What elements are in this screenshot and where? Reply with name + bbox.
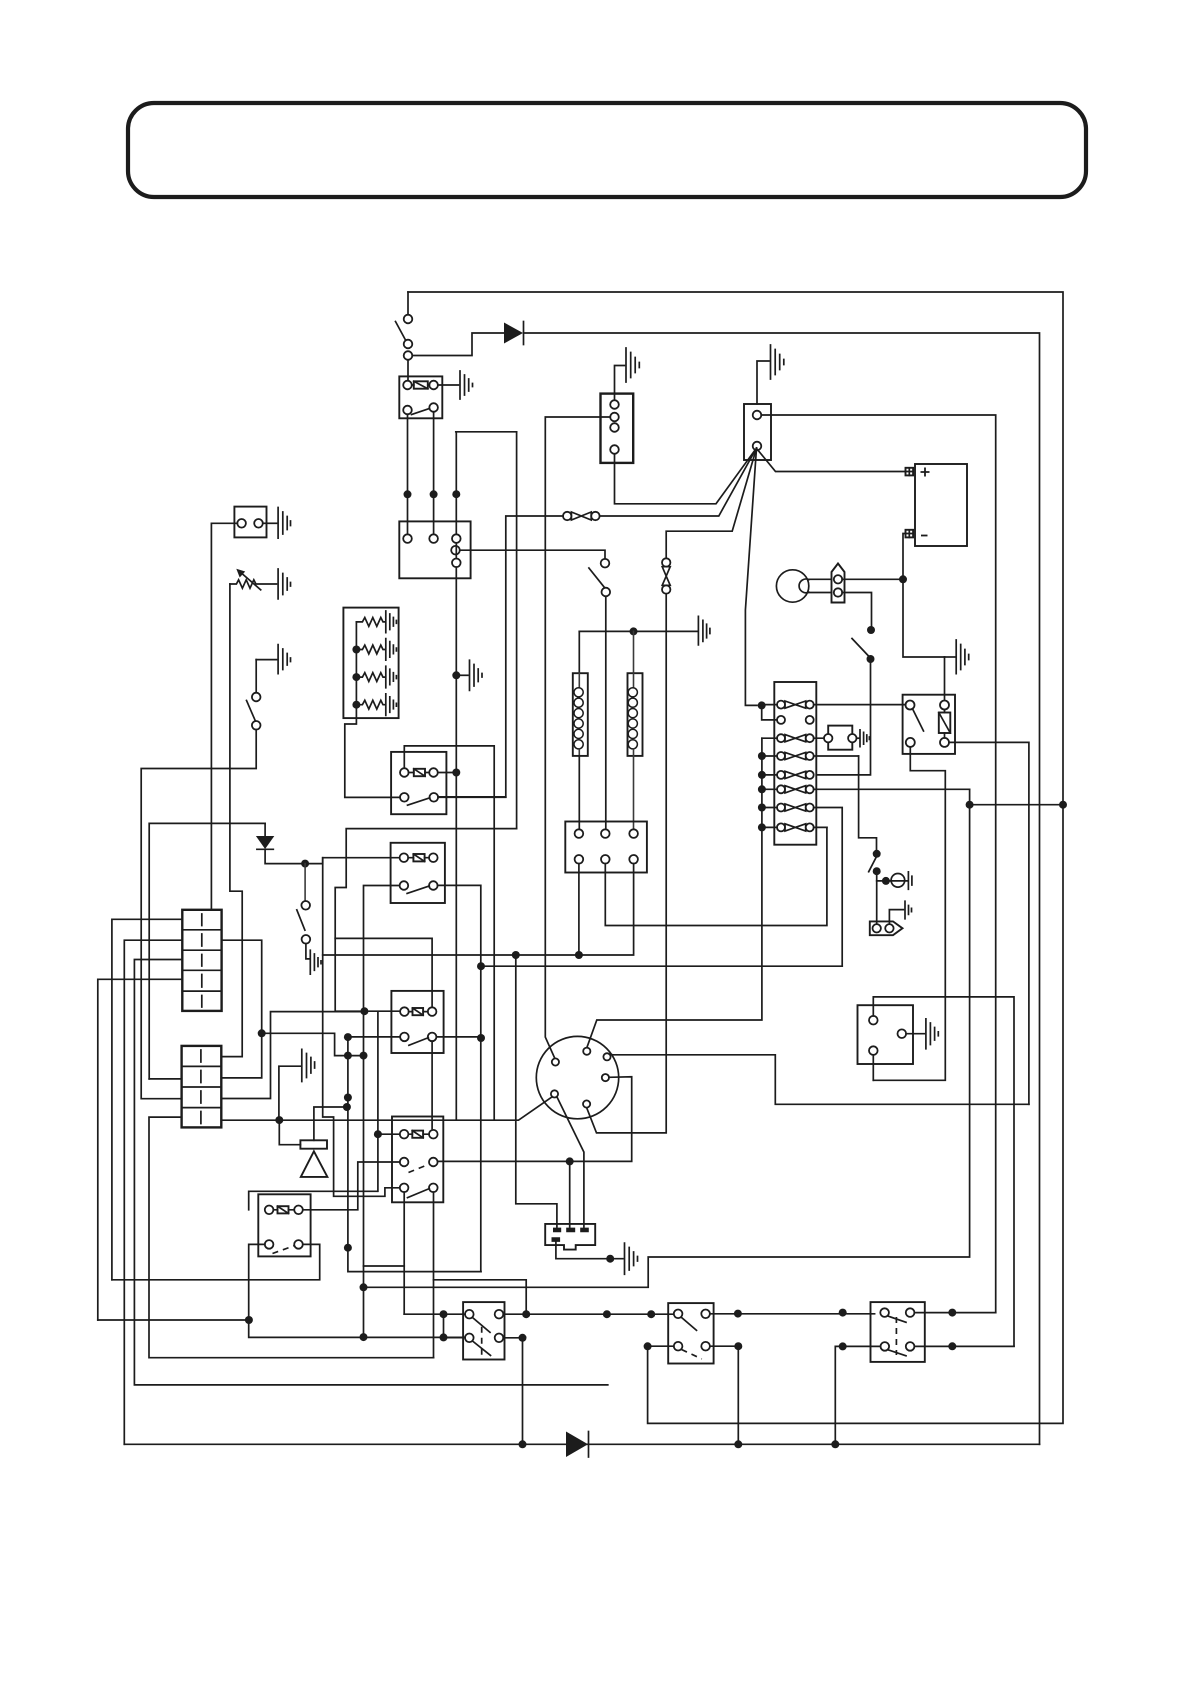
wire: hour meter mid pin to ground xyxy=(906,1033,924,1035)
glow plug coil 1 xyxy=(578,631,580,673)
connector CNO (oil pressure, pentagon) xyxy=(870,921,903,935)
fan line C: CN2R pin2 via vertical inline connector to key switch bottom xyxy=(587,448,757,1133)
diode D1 (pointing right) xyxy=(504,323,523,344)
connector CNF (right of fuse row3) with ground xyxy=(828,726,852,750)
wire: SW2 row2 right drop to bottom wire xyxy=(710,1346,738,1444)
wire: buzzer feed from block2-row4 run xyxy=(279,1120,300,1145)
wire: R5 coil-left to V378 xyxy=(378,1133,400,1135)
glow resistor bus xyxy=(345,622,400,798)
node: dots on x=481 xyxy=(477,962,485,970)
wire: S4b to fuse row5 xyxy=(816,659,870,775)
ground (right of CN2L) xyxy=(278,508,290,539)
wire: CB2 row2 left xyxy=(149,1078,181,1080)
ground (right of x=456.3, mid) xyxy=(456,674,468,676)
switch S1 (top, above relay R1) xyxy=(407,292,409,314)
key connector block xyxy=(545,1224,595,1250)
wire: dot to R3 rail xyxy=(305,858,323,864)
wire: CN6 bottom-right pin down, horizontal A to left xyxy=(323,864,634,955)
wire: R2 bottom-right to fan line B end xyxy=(438,796,506,798)
connector block CB1 (5x2) xyxy=(182,910,221,1011)
diode D2 (pointing down, left area) xyxy=(264,823,266,836)
connector CN4 (4-pin, top center) xyxy=(601,394,634,463)
wire: RB lower-right pin to x=1028.9 rail down to relay R5 loop xyxy=(949,742,1029,1104)
fuse FU1 row1 xyxy=(762,701,814,709)
wire: bulb to connector CNB xyxy=(809,579,832,592)
fuse box xyxy=(774,682,816,845)
relay RB (starter relay, right) xyxy=(903,695,955,754)
node: dot D2 to S2 xyxy=(301,860,309,868)
wire: fuse row6 to right rail junction xyxy=(364,789,970,1287)
fuse FU5 row6 xyxy=(762,785,970,793)
wire: top feed from switch S1 to right rail x=1063 down to bottom-left rail xyxy=(408,292,1063,1423)
wire: key switch right pin to R5 row2 xyxy=(438,1077,632,1162)
wire: key bottom-left pin to block2 row4 (left) xyxy=(221,1097,552,1120)
ground (right of battery negative wire) xyxy=(956,640,969,674)
connector block CB2 (4x2) xyxy=(182,1046,222,1128)
wire: glow plug ground rail xyxy=(579,630,698,632)
node: dot V347 top xyxy=(344,1033,352,1041)
wire: buzzer top to x=346.9 rail xyxy=(314,1107,347,1140)
wire: V378 rail xyxy=(377,1011,379,1191)
wire: link y=1266 xyxy=(364,1265,405,1267)
resistor row3 xyxy=(356,673,384,682)
wire: CN4 top pin to ground xyxy=(615,366,625,401)
wire: R5 bottom-left pin down xyxy=(403,1192,405,1314)
wire: CB1 row3 left to y=1384.9 run xyxy=(134,960,607,1385)
wire: CB1 row4 left to R6 chain xyxy=(98,979,183,1320)
wire: SW3 row1 right to x=995.7 xyxy=(914,1312,995,1314)
ground (right of S_left) xyxy=(278,645,290,674)
wire: CNB pin1 to battery negative junction xyxy=(842,578,903,580)
wire: R5 row2-left to R6 coil-right xyxy=(303,1162,400,1210)
fuse FU3 row4 xyxy=(762,752,859,760)
wire: R3 coil-left to V1 rail xyxy=(323,858,401,1197)
wire: CN5 right pin chain down (long mid vertical x=456.3) xyxy=(455,543,457,1120)
title box xyxy=(128,103,1086,197)
fuse FU6 row7 xyxy=(762,804,842,967)
wire: CN2R pin1 right to rail x=995.7 xyxy=(761,415,995,1313)
wire: SW2 row2 left from rail xyxy=(648,1345,674,1347)
ground (right of R1) xyxy=(460,371,473,399)
wire: CN4 pin2 left to key switch (x=545.3 long vertical) xyxy=(545,417,610,1059)
wire: R4 switch-right to x=494.2 xyxy=(436,1036,481,1038)
wire: SW2 row1 right bus to SW3 xyxy=(710,1313,875,1315)
node: dots on bottom wire xyxy=(519,1440,527,1448)
wire: CB2 row3 right long run xyxy=(221,1012,360,1099)
wire: dash1 feed from x=515.8 xyxy=(516,955,557,1227)
relay R2 xyxy=(391,752,446,814)
wire: SW1 row2 right drop to bottom wire xyxy=(503,1338,522,1445)
wire: CN6 bottom-mid pin to fuse row8 riser xyxy=(605,827,827,925)
wire: key top-right pin to relay RB pin4 rail xyxy=(610,1054,1029,1104)
buzzer xyxy=(300,1140,327,1148)
node: splice dots above CN5 xyxy=(404,490,412,498)
wire: R5 row3 right down xyxy=(433,1192,435,1358)
node: junction dot right rail at y=804.7 xyxy=(1059,801,1067,809)
wire: R6 coil-left to R5 row3 run xyxy=(249,1191,377,1210)
hour meter box xyxy=(858,1005,914,1064)
wire: CN2R top to ground xyxy=(757,361,769,404)
relay R3 xyxy=(391,843,445,903)
ground (S2) xyxy=(310,950,321,974)
relay R5 (3 rows) xyxy=(392,1117,443,1203)
ground (glow rail right) xyxy=(698,616,710,645)
wire: V347 rail down to x=481 link xyxy=(348,1037,481,1272)
wire: CN2L left pin down to block1 top xyxy=(211,523,237,910)
node: junction dot switch2 row2 left drop xyxy=(644,1342,652,1350)
inline connector F2 (bowtie, vertical) xyxy=(662,558,670,566)
wire: SW3 row2 right to x=1014 xyxy=(914,1345,1014,1347)
ground (right of rheostat) xyxy=(278,569,290,599)
wire: R2 coil-right to bus x=456.3 xyxy=(438,772,457,774)
wire: CN6 bottom-left pin down to node A xyxy=(578,864,580,955)
wire: hour meter bottom pin down to RB run xyxy=(872,1055,874,1080)
wire: CNO pin2 to ground xyxy=(889,910,903,925)
relay R1 (glow relay, top left) xyxy=(399,376,442,418)
wire: R6 bottom-left to dot chain xyxy=(249,1244,465,1337)
headlight bulb xyxy=(776,570,808,602)
rheostat (panel light dimmer) xyxy=(230,580,277,588)
wire: SW1 rows bridge xyxy=(443,1314,445,1337)
wire: fuse row1 to RB xyxy=(814,704,906,706)
wire: loop bus bottom edge + descender into R4 coil loop xyxy=(335,829,516,939)
node: dot row6 rail xyxy=(966,801,974,809)
wire: S1 to diode D1 xyxy=(413,333,505,356)
node: dash2 tap dot xyxy=(566,1157,574,1165)
wire: R1 coil to ground xyxy=(438,384,459,386)
key switch xyxy=(536,1036,618,1118)
node: dot on link xyxy=(258,1029,266,1037)
wire: SW3 row2 left riser from bottom wire xyxy=(835,1346,880,1444)
wire: fuse left bus xyxy=(587,738,762,1047)
resistor row1 xyxy=(356,618,384,627)
switch S4 (water temp, right) xyxy=(859,756,877,850)
wire: S4 to sensor and oil connector xyxy=(876,871,878,924)
fan line D: CN2R pin2 down to fuse feed node xyxy=(745,448,757,705)
ground (interlock) xyxy=(302,1049,315,1081)
inline connector F1 (bowtie, horizontal) xyxy=(563,512,571,520)
wire: loop bus top edge and right edge (heavy) xyxy=(456,432,517,535)
connector CNB (2-pin bullet) xyxy=(832,564,845,603)
wire: hour meter top pin up and right to x=1014 xyxy=(873,997,1014,1346)
wire: SW1 row2 left xyxy=(444,1337,466,1339)
wire: D2 anode long run left xyxy=(149,823,265,1079)
battery xyxy=(915,464,967,546)
diode D3 (on bottom wire, pointing right) xyxy=(566,1432,588,1458)
wire: dash4 to ground xyxy=(556,1241,623,1259)
fuse FU2 row3 xyxy=(762,734,824,742)
switch S_left (parking brake) xyxy=(256,659,276,661)
switch S4b (below battery) xyxy=(867,626,875,634)
bottom wire xyxy=(124,1443,1039,1445)
temperature sender (circle with bar) xyxy=(891,874,905,888)
fuse FU7 row8 xyxy=(762,823,827,831)
ground (key block) xyxy=(625,1243,638,1274)
wire: CB1 row2 left to bottom wire xyxy=(124,940,182,1444)
relay R4 xyxy=(391,991,443,1053)
wire: R4 switch-right down to R5 coil-right xyxy=(431,1041,433,1128)
wire: cross link y=804.7 xyxy=(970,804,1063,806)
node: dot on x=456.3 at ground tap xyxy=(452,671,460,679)
node: battery negative junction xyxy=(899,575,907,583)
wire: R5 row3 right link to switch1 bus xyxy=(434,1280,527,1314)
node: dot V363 end xyxy=(360,1333,368,1341)
wire: rheostat down to block2 row1 xyxy=(221,584,242,1057)
fan line B: CN2R pin2 to inline connector F1 to x=505.8 xyxy=(600,448,757,516)
wire: relay RB coil feed xyxy=(944,657,946,701)
wire: CB1 row1 left to R6 loop xyxy=(112,919,182,1280)
wire: battery positive feed xyxy=(757,449,906,472)
wire: R4 coil-left run xyxy=(369,1010,400,1012)
node: fuse bus dots xyxy=(758,752,766,760)
resistor row2 xyxy=(356,645,384,654)
switch S3 (center) xyxy=(601,559,610,568)
relay R1 contacts xyxy=(403,406,412,415)
fuse FU4 row5 xyxy=(762,771,814,779)
connector CN2R (2-pin, top right) xyxy=(744,404,771,460)
wire: R2 pin1 loop to R4 xyxy=(404,746,494,1120)
node: dot x=456.3 at R2 coil tap xyxy=(452,769,460,777)
wire: left feed into R6 bottom chain xyxy=(98,1319,249,1321)
wire: S_left down to y=768 run to left column xyxy=(141,730,256,1099)
glow resistor box xyxy=(343,608,398,719)
wire: SW1 row1 left xyxy=(404,1313,465,1315)
wire: battery negative to starter node xyxy=(903,534,945,658)
wire: dash2 feed xyxy=(569,1161,571,1227)
wire: SW1 row1 right bus to SW2 xyxy=(503,1313,674,1315)
switch SW1 (PTO switch) xyxy=(463,1302,504,1359)
wire: R4 coil loop xyxy=(335,938,432,1011)
spare terminals row2 xyxy=(777,716,785,724)
node: dots on horizontal A xyxy=(575,951,583,959)
wire: RB lower-left pin to hour meter xyxy=(873,747,945,1080)
wire: fuse row7 long run left xyxy=(481,965,842,967)
wire: CN5 mid-right pin to switch S3 xyxy=(460,550,605,559)
connector CN5 (5-pin, below R1) xyxy=(399,521,470,578)
node: fuse feed dot xyxy=(758,701,766,709)
wire: R4 switch-left run to V347 xyxy=(348,1036,400,1038)
wire: R1 pins down to connector CN5 xyxy=(407,414,409,534)
ground (above CN4) xyxy=(626,348,639,382)
wire: CNB pin2 to switch S4b xyxy=(842,593,871,627)
wire: CB2 row4 left from below xyxy=(149,1117,434,1358)
connector CN6 (6-pin, center) xyxy=(565,822,647,873)
wire: key bottom-left pin to key connector dash3 xyxy=(557,1097,584,1227)
resistor row4 xyxy=(356,700,384,709)
glow plug coil 2 xyxy=(633,631,635,673)
switch SW2 (brake switch) xyxy=(668,1303,713,1363)
relay R6 xyxy=(258,1194,310,1256)
wire: D1 to right rail x=1039.5 down to bottom wire xyxy=(524,333,1040,1444)
wire: interlock ground branch xyxy=(279,1066,300,1120)
wire: R3 switch-right down to junctions xyxy=(438,885,481,1271)
wire: CB1 row2 right to CB2 row2 right link xyxy=(221,940,261,1078)
wire: R3 switch-left to V363 rail xyxy=(364,886,400,1338)
wire: block link y=1055.6 xyxy=(262,1033,364,1055)
switch S2 (seat switch) xyxy=(304,864,306,901)
connector CN2L (2-pin, top left) xyxy=(234,507,266,538)
wire: CN4 bottom pin to fan line A xyxy=(615,448,757,504)
node: dot R4 coil-left junction xyxy=(360,1007,368,1015)
wire: R6 bottom-right loop to left column xyxy=(112,1244,320,1279)
ground (above CN2R) xyxy=(771,345,784,379)
switch SW3 (lift switch) xyxy=(871,1302,925,1362)
